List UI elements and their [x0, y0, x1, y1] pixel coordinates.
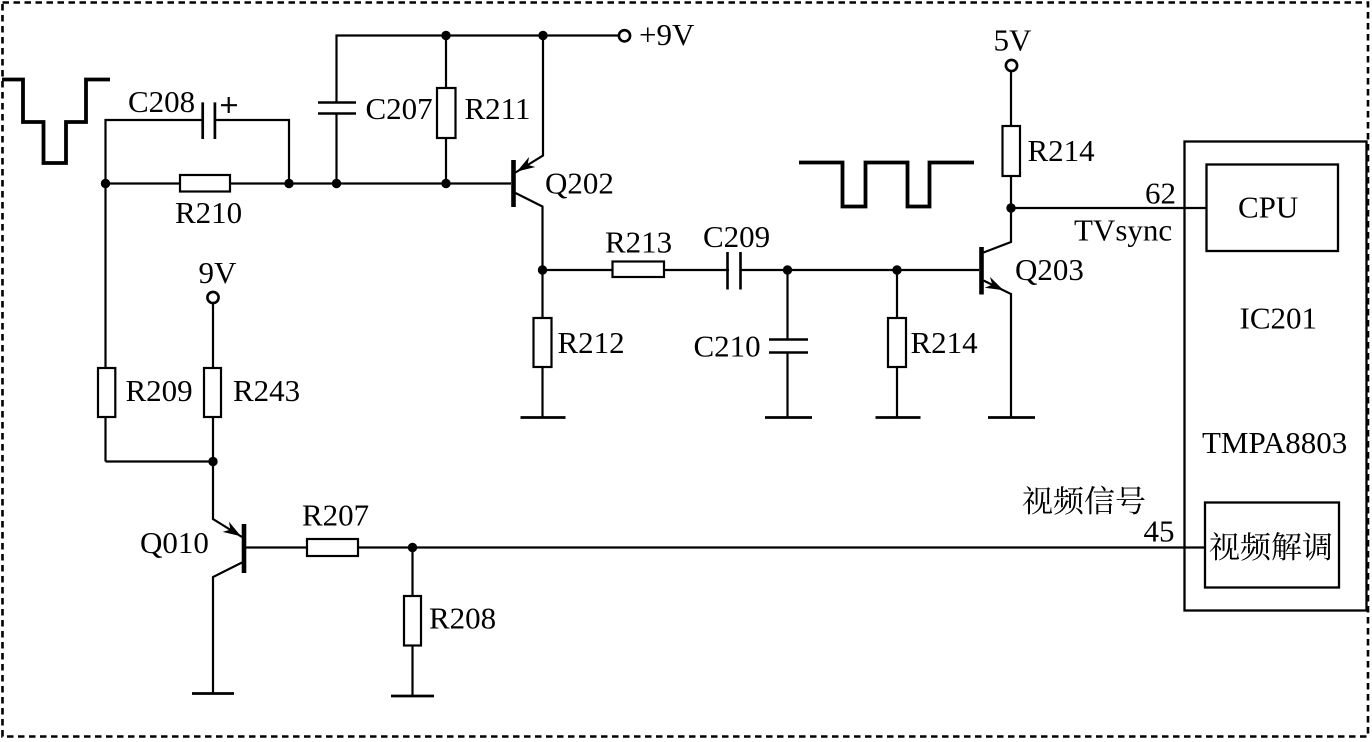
svg-text:Q010: Q010 [140, 525, 209, 560]
junction Q202 collector / R212 / R213 [538, 265, 547, 274]
wire Q010 base to R207 [246, 546, 307, 548]
svg-text:TVsync: TVsync [1074, 213, 1172, 248]
svg-text:C207: C207 [366, 91, 433, 126]
svg-text:CPU: CPU [1238, 190, 1298, 225]
svg-text:R210: R210 [175, 195, 242, 230]
resistor R214 (collector load) [1010, 72, 1012, 209]
resistor R212 [541, 270, 543, 417]
junction C208 right [284, 179, 293, 188]
capacitor C207 [318, 103, 356, 114]
svg-text:IC201: IC201 [1240, 301, 1318, 336]
junction R209 / R243 / Q010 [208, 457, 217, 466]
capacitor C210 [786, 270, 788, 417]
capacitor C209 [729, 255, 740, 284]
svg-text:R214: R214 [1028, 133, 1096, 168]
svg-text:R208: R208 [429, 601, 496, 636]
svg-text:C208: C208 [128, 84, 195, 119]
resistor R208 [411, 548, 413, 697]
capacitor C208 [203, 102, 215, 139]
svg-text:R243: R243 [233, 373, 300, 408]
junction C207 bottom [332, 179, 341, 188]
ground (R212) [521, 416, 566, 419]
junction R211 top rail [441, 31, 450, 40]
ground (Q010) [192, 692, 234, 695]
video demod block [1205, 503, 1339, 588]
svg-text:R209: R209 [126, 373, 193, 408]
svg-text:TMPA8803: TMPA8803 [1202, 425, 1347, 460]
resistor R213 [613, 262, 665, 278]
junction R207 / R208 [408, 543, 417, 552]
transistor Q202 [511, 160, 516, 207]
wire TVsync to CPU pin 62 [1011, 207, 1206, 209]
svg-text:R211: R211 [465, 91, 531, 126]
node label 视频信号 pin 45 [1023, 486, 1052, 514]
wire R209 bottom joins node [106, 460, 214, 462]
ground (Q203) [988, 416, 1035, 419]
resistor R214 (emitter pull) [896, 270, 898, 417]
resistor R207 [307, 539, 358, 556]
svg-text:9V: 9V [199, 255, 238, 290]
svg-text:Q203: Q203 [1015, 252, 1084, 287]
transistor Q203 [979, 247, 984, 295]
ground (R208) [391, 695, 434, 698]
input sync waveform [2, 80, 110, 164]
wire node A row (base of Q202) [106, 182, 512, 184]
wire video signal row [413, 546, 1206, 548]
junction C209 / C210 [783, 265, 792, 274]
resistor R210 [180, 175, 230, 192]
transistor Q010 [213, 462, 242, 538]
output sync waveform [799, 163, 974, 207]
junction R211 bottom [441, 179, 450, 188]
resistor R243 [212, 303, 214, 462]
wire node B row (collector of Q202) [543, 269, 980, 271]
svg-text:45: 45 [1144, 514, 1175, 549]
svg-text:+9V: +9V [639, 17, 695, 52]
wire top rail +9V [337, 36, 620, 103]
svg-text:62: 62 [1145, 176, 1176, 211]
CPU block [1207, 165, 1339, 252]
svg-text:R214: R214 [911, 325, 979, 360]
resistor R211 [445, 36, 447, 184]
terminal 9V [207, 292, 218, 303]
IC U201 block [1185, 142, 1367, 611]
ground (R214) [876, 416, 921, 419]
resistor R209 [104, 184, 106, 462]
ground (C210) [765, 416, 812, 419]
svg-text:5V: 5V [994, 23, 1033, 58]
junction R214 / Q203 base [892, 265, 901, 274]
terminal 5V [1006, 60, 1017, 71]
junction R210/R209/C208 left [101, 179, 110, 188]
terminal +9V [619, 30, 630, 41]
junction R214 / Q203 collector / TVsync [1006, 203, 1015, 212]
svg-text:C209: C209 [703, 219, 770, 254]
wire C208 feedback loop [106, 120, 290, 184]
svg-text:R212: R212 [558, 325, 625, 360]
svg-text:Q202: Q202 [545, 166, 614, 201]
svg-text:R213: R213 [605, 225, 672, 260]
wire R207 to node [358, 546, 413, 548]
junction Q202 emitter rail [538, 31, 547, 40]
svg-text:C210: C210 [694, 329, 761, 364]
svg-text:R207: R207 [302, 498, 369, 533]
